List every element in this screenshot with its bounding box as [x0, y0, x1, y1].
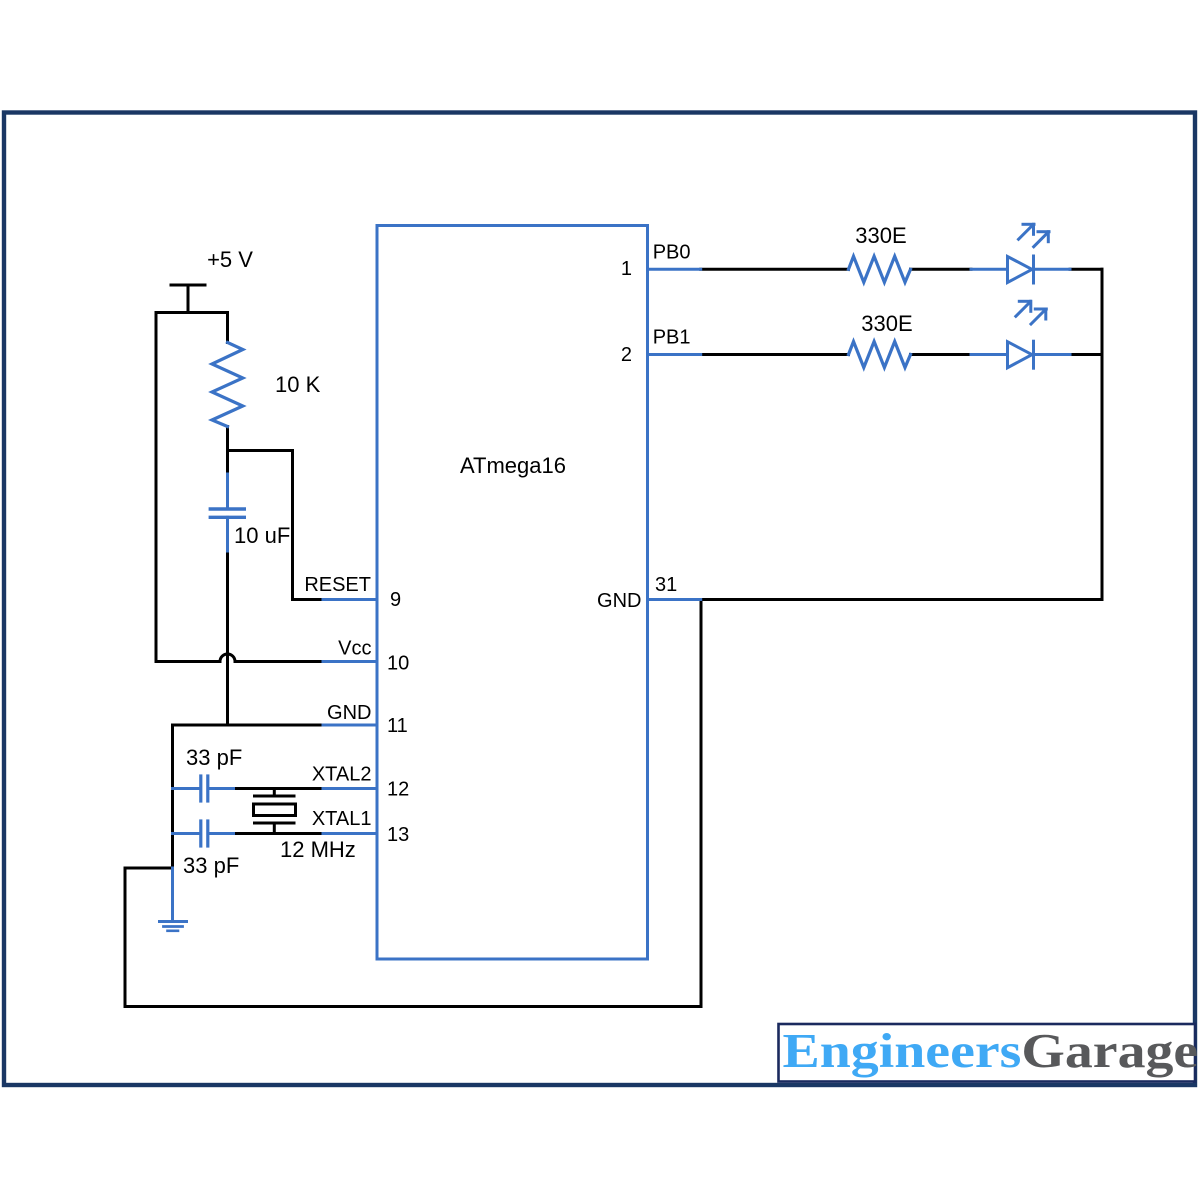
svg-text:12 MHz: 12 MHz	[280, 837, 356, 862]
svg-text:GND: GND	[327, 702, 371, 724]
svg-text:EngineersGarage: EngineersGarage	[783, 1024, 1199, 1078]
svg-text:PB0: PB0	[653, 242, 691, 264]
svg-text:11: 11	[387, 715, 408, 737]
svg-text:33 pF: 33 pF	[186, 745, 242, 770]
svg-text:1: 1	[621, 258, 632, 280]
svg-text:Vcc: Vcc	[338, 638, 371, 660]
svg-text:+5 V: +5 V	[207, 247, 253, 272]
svg-text:10 K: 10 K	[275, 372, 321, 397]
svg-text:RESET: RESET	[304, 574, 371, 596]
svg-text:10 uF: 10 uF	[234, 523, 290, 548]
svg-text:330E: 330E	[861, 311, 912, 336]
svg-text:10: 10	[387, 653, 409, 675]
svg-text:PB1: PB1	[653, 327, 691, 349]
svg-text:33 pF: 33 pF	[183, 853, 239, 878]
svg-text:2: 2	[621, 344, 632, 366]
svg-text:GND: GND	[597, 590, 641, 612]
svg-text:31: 31	[655, 574, 677, 596]
svg-text:9: 9	[390, 589, 401, 611]
svg-text:XTAL1: XTAL1	[312, 808, 372, 830]
svg-text:330E: 330E	[855, 223, 906, 248]
svg-text:13: 13	[387, 824, 409, 846]
svg-text:XTAL2: XTAL2	[312, 764, 372, 786]
svg-text:ATmega16: ATmega16	[460, 453, 566, 478]
svg-text:12: 12	[387, 779, 409, 801]
